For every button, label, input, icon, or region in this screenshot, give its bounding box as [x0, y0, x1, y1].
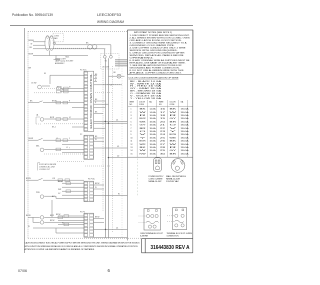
low switch wire	[26, 178, 84, 180]
P4 out wire 1	[94, 184, 104, 186]
svg-text:316443830 REV A: 316443830 REV A	[151, 245, 190, 251]
P4 in wire 3	[58, 189, 84, 191]
svg-text:18-GA: 18-GA	[150, 130, 157, 133]
svg-text:R/W: R/W	[140, 153, 147, 155]
door lock motor lead	[54, 56, 61, 60]
svg-text:14-GA: 14-GA	[150, 111, 157, 114]
latch lamp wire label	[50, 117, 55, 119]
color code legend list	[130, 80, 163, 100]
disclaimer line 1	[25, 241, 141, 244]
P2 out wire 1	[94, 137, 104, 139]
svg-text:19: 19	[160, 118, 165, 120]
door switch wire	[28, 101, 84, 103]
svg-text:BK/W: BK/W	[58, 181, 63, 183]
svg-text:1: 1	[131, 109, 132, 111]
svg-text:25: 25	[160, 137, 165, 139]
svg-text:13: 13	[131, 147, 133, 149]
diagram dashed left border	[27, 31, 29, 238]
svg-text:3-WIRE: 3-WIRE	[140, 236, 149, 238]
svg-text:18-GA: 18-GA	[181, 146, 190, 149]
terminal boxes wire EOC a	[57, 87, 69, 90]
svg-text:6: 6	[131, 125, 132, 127]
wire to lamp 3	[33, 48, 105, 50]
svg-text:BK/W: BK/W	[140, 118, 147, 120]
disclaimer line 2	[25, 245, 138, 248]
footer page number	[108, 268, 111, 273]
svg-text:GY: GY	[69, 117, 71, 119]
svg-text:18-GA: 18-GA	[150, 117, 157, 120]
mid switch label right	[56, 138, 58, 140]
latch lamp wire	[44, 118, 84, 120]
svg-text:18-GA: 18-GA	[181, 136, 190, 139]
lamp label L1 small	[110, 85, 112, 87]
P2 in wire	[62, 143, 84, 145]
probe wire	[44, 196, 84, 198]
wire EOC out 5	[94, 127, 106, 129]
supply line 2	[115, 61, 127, 63]
label Y near motor	[69, 147, 70, 149]
P3 out wire 1 label	[95, 216, 100, 218]
svg-text:WIRING DIAGRAM: WIRING DIAGRAM	[97, 20, 124, 24]
svg-text:MDL: MDL	[36, 145, 40, 147]
svg-text:10: 10	[131, 137, 133, 139]
svg-text:18-GA: 18-GA	[181, 111, 190, 114]
EOC pin stack	[84, 72, 88, 131]
svg-text:29: 29	[160, 150, 165, 152]
svg-text:MDL: MDL	[66, 57, 70, 59]
convection fan terminal	[53, 42, 55, 44]
convection fan dashed box	[53, 33, 64, 42]
wire EOC out 1	[94, 100, 106, 102]
EOC stub extra 1	[72, 106, 84, 108]
svg-text:ASSEMBLY: ASSEMBLY	[55, 62, 65, 65]
color code legend heading	[129, 76, 180, 79]
svg-text:20: 20	[160, 121, 165, 123]
latch motor label	[36, 145, 40, 147]
svg-text:IMPORTANT NOTES (SEE NOTE 1): IMPORTANT NOTES (SEE NOTE 1)	[134, 31, 172, 34]
bottom switch circle 2	[40, 221, 44, 225]
EOC dashed wire right	[95, 92, 113, 94]
svg-text:18-GA: 18-GA	[181, 124, 190, 127]
label W near boxes a	[69, 86, 71, 88]
probe wire label	[52, 195, 56, 198]
wire fan feed	[56, 44, 97, 46]
svg-text:18-GA: 18-GA	[150, 143, 157, 146]
L1 crossing label 2	[117, 146, 120, 148]
svg-text:BK/W: BK/W	[29, 54, 34, 56]
svg-text:18: 18	[160, 115, 165, 117]
latch motor dashed	[44, 153, 84, 155]
L2 crossing label	[117, 155, 120, 157]
bus dashed right	[112, 66, 114, 232]
latch dashed wire	[44, 123, 84, 125]
P2 in wire 2	[62, 152, 84, 154]
svg-text:LEEC30EF53: LEEC30EF53	[97, 13, 121, 17]
P4 in wire 2	[62, 186, 84, 188]
svg-text:18-GA: 18-GA	[181, 149, 190, 152]
bottom switch circle 1	[40, 216, 44, 220]
P3 out wire 1	[94, 217, 104, 219]
supply line 3	[115, 63, 127, 65]
svg-text:Y - YELLOW 18 GA: Y - YELLOW 18 GA	[130, 97, 163, 100]
svg-text:18-GA: 18-GA	[181, 133, 190, 136]
svg-text:BK/W: BK/W	[170, 134, 177, 136]
supply line 4	[115, 65, 127, 67]
svg-text:3: 3	[131, 115, 132, 117]
EOC pin label W right	[94, 77, 97, 79]
svg-text:L1: L1	[66, 147, 68, 149]
svg-text:5: 5	[131, 121, 132, 123]
terminal boxes latch lamp wire	[56, 118, 68, 121]
P3 in wire 0b	[58, 219, 84, 221]
svg-text:30: 30	[160, 153, 165, 155]
svg-text:18-GA: 18-GA	[150, 152, 157, 155]
diagram dashed bottom border	[28, 237, 142, 239]
P2 pin stack	[84, 136, 93, 158]
door switch label right	[52, 100, 57, 102]
supply line 1	[115, 59, 127, 61]
cavity lamp wire	[108, 75, 124, 77]
svg-text:BK/W: BK/W	[50, 220, 55, 222]
svg-text:18-GA: 18-GA	[181, 117, 190, 120]
oven lamp assembly ellipses	[45, 36, 54, 51]
N crossing wire	[94, 194, 128, 196]
wire label BK-1	[30, 100, 33, 102]
lamp assembly lead down	[49, 51, 51, 56]
wire elbow to terminal block	[96, 45, 111, 56]
P4 connector box	[84, 181, 94, 202]
power plug label	[149, 176, 165, 183]
svg-text:18-GA: 18-GA	[150, 146, 157, 149]
fan motor circles	[88, 45, 97, 50]
svg-text:BK-2: BK-2	[52, 126, 56, 128]
svg-text:CODE: CODE	[139, 104, 145, 106]
svg-text:18-GA: 18-GA	[181, 140, 190, 143]
wire into EOC a label	[57, 86, 62, 88]
svg-text:4: 4	[131, 118, 132, 120]
oven light switch circle	[38, 85, 42, 89]
EOC rotated label	[91, 72, 93, 128]
svg-text:BK/W: BK/W	[95, 216, 100, 218]
mid switch wire	[28, 138, 84, 140]
P3 out wire 2	[94, 221, 104, 223]
notes box	[128, 30, 194, 74]
svg-text:OVEN TERMINAL BLOCK KIT: OVEN TERMINAL BLOCK KIT	[140, 232, 164, 235]
label GY near boxes c	[69, 117, 71, 119]
wire label BR top-left	[29, 68, 32, 70]
svg-text:16-GA: 16-GA	[150, 114, 157, 117]
svg-text:2: 2	[131, 112, 132, 114]
svg-text:18-GA: 18-GA	[181, 108, 190, 111]
power terminal block dashed box	[101, 54, 119, 70]
title block strip	[142, 239, 193, 253]
svg-text:14: 14	[131, 150, 133, 152]
P2 long wire	[94, 147, 128, 149]
notes text	[130, 31, 191, 75]
svg-text:17: 17	[160, 112, 165, 114]
part number text	[151, 245, 190, 251]
svg-text:18-GA: 18-GA	[150, 133, 157, 136]
svg-text:NO.: NO.	[159, 104, 163, 106]
wire from switch	[42, 85, 50, 87]
svg-text:18-GA: 18-GA	[181, 143, 190, 146]
svg-text:26: 26	[160, 141, 165, 143]
terminal boxes door switch wire	[56, 101, 68, 104]
wire label BR/BK	[29, 40, 35, 42]
latch motor wire	[44, 148, 84, 150]
svg-text:18-GA: 18-GA	[150, 127, 157, 130]
svg-text:28: 28	[160, 147, 165, 149]
disclaimer line 3	[25, 248, 96, 251]
P3 connector box	[84, 213, 94, 237]
latch lamp circle	[40, 118, 44, 122]
svg-text:P4 P1 A: P4 P1 A	[88, 178, 95, 181]
svg-text:23: 23	[160, 131, 165, 133]
low switch label right	[52, 178, 56, 180]
svg-text:18-GA: 18-GA	[150, 124, 157, 127]
svg-text:18-GA: 18-GA	[181, 152, 190, 155]
svg-text:18-GA: 18-GA	[150, 149, 157, 152]
P2 connector label	[80, 134, 82, 136]
EOC pin label R right	[94, 80, 97, 82]
L1 feed double wire	[94, 121, 128, 123]
latch lamp bracket	[36, 117, 42, 124]
svg-text:BK/W: BK/W	[56, 214, 61, 216]
svg-text:CONNECTION: CONNECTION	[167, 236, 180, 238]
header rule	[10, 25, 193, 27]
bottom switch label 1	[50, 215, 55, 217]
door lock motor label	[66, 57, 70, 59]
wire EOC out 4 label	[95, 112, 98, 114]
wire EOC out 3	[94, 106, 106, 108]
svg-text:APPLIANCE. COPPER CONDUCTORS O: APPLIANCE. COPPER CONDUCTORS ONLY.	[130, 72, 183, 75]
probe label	[36, 192, 40, 194]
convection fan label	[54, 36, 60, 40]
right panel left border	[127, 30, 129, 241]
wire EOC out 2 label	[95, 102, 97, 104]
footer date text	[18, 269, 27, 273]
svg-text:CAUTION DISCONNECT ELECTRICAL: CAUTION DISCONNECT ELECTRICAL POWER SUPP…	[25, 241, 141, 244]
svg-text:07/06: 07/06	[18, 269, 27, 273]
P4 pin stack	[84, 182, 93, 201]
wire label BK/W mid	[29, 138, 34, 140]
wire EOC out 4	[94, 113, 103, 115]
svg-text:18-GA: 18-GA	[150, 140, 157, 143]
L1 junction dots	[105, 121, 109, 124]
P2 out wire 1 label	[95, 136, 98, 138]
crease dashed line	[137, 159, 139, 197]
dashed wire mid 1	[57, 161, 84, 163]
N crossing label	[118, 193, 120, 195]
oven light switch dashes	[34, 89, 60, 93]
bottom switch wire 2	[33, 217, 84, 222]
svg-text:8: 8	[131, 131, 132, 133]
svg-text:Y: Y	[69, 147, 70, 149]
wire into EOC b	[60, 91, 84, 93]
svg-text:18-GA: 18-GA	[181, 130, 190, 133]
terminal box P4 wire 1	[66, 182, 71, 185]
svg-text:CODE: CODE	[170, 104, 176, 106]
svg-text:ATTENTION COUPER L ALIMENTATI: ATTENTION COUPER L ALIMENTATION AVANT DE…	[25, 248, 96, 251]
EOC pin label BK right	[94, 74, 99, 76]
bus L1 vertical	[105, 58, 107, 237]
terminal box P3 wire 0	[64, 215, 69, 218]
wall receptacle drawing	[171, 159, 185, 173]
lamp label BK	[114, 72, 117, 74]
cavity lamp circle	[117, 74, 121, 78]
publication number header text	[12, 13, 53, 17]
latch dashed label	[52, 126, 56, 128]
P4 in wire 1	[58, 181, 84, 183]
svg-text:18-GA: 18-GA	[181, 114, 190, 117]
right panel top border	[128, 29, 194, 31]
svg-text:18-GA: 18-GA	[150, 120, 157, 123]
terminal box low switch wire	[58, 179, 70, 182]
svg-text:BK/W: BK/W	[57, 86, 62, 88]
model number header text	[97, 13, 121, 17]
label V near mid	[69, 138, 70, 140]
supply terminal block label	[167, 232, 193, 238]
svg-text:24: 24	[160, 134, 165, 136]
svg-text:120/240 VAC: 120/240 VAC	[166, 180, 180, 183]
terminal L1 circle	[103, 55, 106, 58]
bottom crossing label	[116, 227, 119, 229]
svg-text:P2: P2	[80, 134, 82, 136]
lamp assembly label	[55, 58, 74, 65]
bus dashed far right	[121, 66, 123, 238]
svg-text:BK/W: BK/W	[26, 215, 31, 217]
wire label BK top	[86, 43, 89, 45]
latch motor circle	[40, 148, 44, 152]
P4 connector label	[88, 178, 95, 181]
terminal boxes wire EOC b	[57, 90, 69, 93]
P2 out wire 2 label	[95, 139, 97, 141]
svg-text:BK/W: BK/W	[95, 183, 100, 185]
wire label BK/W bottom-left	[26, 215, 31, 217]
latch lamp label	[36, 113, 39, 116]
P3 pin stack	[84, 214, 93, 236]
svg-text:BR/W: BR/W	[26, 178, 31, 180]
terminal box latch motor wire	[56, 148, 61, 151]
svg-text:21: 21	[160, 125, 165, 127]
L2 crossing wire	[108, 157, 127, 158]
label BK near elbow	[44, 73, 46, 75]
svg-text:14-GA: 14-GA	[150, 108, 157, 111]
wall receptacle label	[166, 175, 187, 183]
terminal box P3 wire 0c	[64, 223, 69, 226]
P2 connector box	[84, 135, 94, 159]
EOC out wire long top	[94, 84, 122, 86]
svg-text:W: W	[31, 44, 33, 46]
svg-text:ELECTRONIC OVEN CONTROL: ELECTRONIC OVEN CONTROL	[91, 72, 93, 128]
elbow wire to EOC pin1	[50, 75, 84, 84]
P4 out wire 1 label	[95, 183, 100, 185]
svg-text:15: 15	[131, 153, 133, 155]
svg-text:18-GA: 18-GA	[181, 120, 190, 123]
bus neutral dashed left	[102, 69, 104, 212]
wire label BK	[30, 47, 33, 49]
terminal box mid switch wire	[56, 139, 68, 142]
svg-text:BK/W: BK/W	[29, 138, 34, 140]
wire EOC out 1 label	[95, 99, 98, 101]
power plug drawing	[154, 158, 162, 172]
terminal L2 circle	[110, 55, 113, 58]
diagram dashed top border	[28, 30, 128, 32]
P3 in wire extra	[28, 226, 56, 228]
wire to lamp 2	[33, 44, 46, 46]
terminal box P4 wire 3	[66, 190, 71, 193]
wire gauge table	[128, 100, 194, 157]
svg-text:V: V	[69, 138, 70, 140]
page left border line	[24, 28, 26, 253]
bottom crossing wire	[94, 229, 128, 230]
lamp dashed wire	[103, 84, 120, 86]
svg-text:18-GA: 18-GA	[181, 127, 190, 130]
wire into EOC b label	[62, 90, 64, 92]
svg-text:NO.: NO.	[130, 104, 134, 106]
supply terminal block drawing	[167, 208, 187, 230]
oven terminal block drawing	[139, 209, 161, 231]
dashed wire fan	[53, 47, 96, 49]
terminal block inner label	[102, 61, 109, 69]
svg-text:27: 27	[160, 144, 165, 146]
oven terminal block label	[140, 232, 164, 238]
svg-text:16: 16	[160, 109, 165, 111]
P4 out wire 2	[94, 188, 104, 190]
probe circle	[40, 195, 44, 199]
dashed wire mid 2	[85, 165, 110, 167]
P3 connector label	[80, 211, 85, 213]
wire to lamp 1	[33, 41, 46, 43]
P3 in wire 1	[56, 227, 84, 229]
svg-text:BK: BK	[44, 73, 46, 75]
svg-text:9: 9	[131, 134, 132, 136]
bottom long wire	[94, 237, 128, 239]
svg-text:Publication No. 5995447139: Publication No. 5995447139	[12, 13, 53, 17]
wire label BK/W bottom	[29, 54, 34, 56]
P3 in wire 0c	[58, 222, 84, 224]
svg-text:TERMINAL BLOCK KIT 4-WIRE: TERMINAL BLOCK KIT 4-WIRE	[167, 232, 193, 235]
oven light switch label	[31, 82, 37, 84]
EOC stub extra 2	[72, 126, 84, 128]
right panel right border	[192, 30, 194, 253]
svg-text:12: 12	[131, 144, 133, 146]
svg-text:WITH JUNCTION WIRES AS INSTALL: WITH JUNCTION WIRES AS INSTALLED IN CONS…	[25, 245, 138, 248]
svg-text:COLOR CODE IDENTIFICATION OF W: COLOR CODE IDENTIFICATION OF WIRE	[129, 76, 180, 79]
wire lamp bottom	[33, 55, 88, 57]
svg-text:18-GA: 18-GA	[150, 136, 157, 139]
wire into EOC a	[60, 87, 84, 89]
svg-text:LOCKED OUT: LOCKED OUT	[39, 169, 50, 171]
P2 out wire 2	[94, 140, 104, 142]
svg-text:11: 11	[131, 141, 133, 143]
wire label BR/W low	[26, 178, 31, 180]
svg-text:NEMA 10-50P: NEMA 10-50P	[149, 180, 163, 183]
wiring diagram header text	[97, 20, 124, 24]
wire EOC out 2	[94, 103, 109, 105]
svg-text:7: 7	[131, 128, 132, 130]
bottom switch wire 1	[28, 216, 84, 218]
svg-text:BK/R: BK/R	[50, 117, 55, 119]
latch motor wire label	[66, 147, 68, 149]
L1 feed label	[116, 119, 119, 121]
P4 in wire 4	[58, 193, 84, 195]
svg-text:OL SW: OL SW	[31, 82, 37, 84]
wire label W	[31, 44, 33, 46]
probe return vertical	[51, 200, 53, 217]
svg-text:22: 22	[160, 128, 165, 130]
label R near boxes b	[69, 101, 71, 103]
